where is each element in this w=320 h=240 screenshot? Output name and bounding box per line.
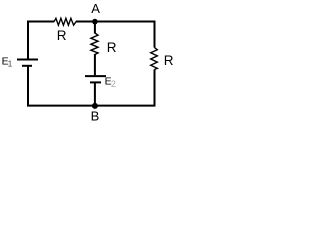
- wire: battery E2 - plate down to node B: [94, 83, 96, 106]
- battery E1: short (-) plate: [22, 65, 32, 67]
- label E2: [105, 75, 116, 88]
- svg-text:1: 1: [8, 58, 13, 68]
- node A junction dot: [92, 19, 98, 25]
- node B junction dot: [92, 103, 98, 109]
- wire: node A right to top-right corner, down to resistor R (right): [95, 22, 155, 48]
- svg-text:A: A: [91, 1, 100, 16]
- svg-text:R: R: [107, 40, 117, 55]
- resistor R (right branch): [151, 48, 158, 70]
- label node A: [91, 1, 100, 16]
- battery E2: long (+) plate: [85, 75, 106, 77]
- svg-text:R: R: [57, 28, 67, 43]
- wire: node B left to bottom-left corner, up to E1 - plate: [28, 67, 95, 106]
- label R (top resistor): [57, 28, 67, 43]
- label R (middle resistor): [107, 40, 117, 55]
- svg-text:2: 2: [111, 79, 116, 89]
- battery E2: short (-) plate: [90, 81, 101, 83]
- battery E1: long (+) plate: [17, 59, 38, 61]
- label E1: [2, 55, 13, 68]
- wire: resistor R (top) to node A: [76, 21, 95, 23]
- wire: E1 + terminal up to top-left corner, right to resistor R (top): [28, 22, 54, 60]
- svg-text:R: R: [164, 53, 174, 68]
- label node B: [91, 109, 100, 124]
- resistor R (top, between E1 and node A): [54, 18, 76, 25]
- wire: resistor R (middle) down to battery E2 + plate: [94, 54, 96, 75]
- label R (right resistor): [164, 53, 174, 68]
- wire: resistor R (right) down to bottom-right corner, left to node B: [95, 70, 155, 106]
- svg-text:B: B: [91, 109, 100, 124]
- wire: node A down to resistor R (middle): [94, 22, 96, 34]
- resistor R (middle branch): [91, 33, 98, 55]
